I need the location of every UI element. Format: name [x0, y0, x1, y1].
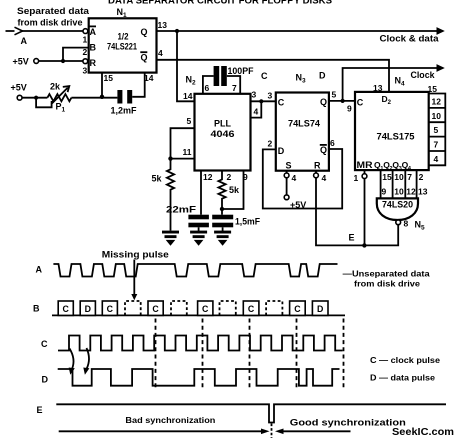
svg-text:1,5mF: 1,5mF — [235, 217, 260, 227]
svg-text:A: A — [90, 27, 97, 37]
svg-text:3: 3 — [83, 66, 88, 76]
svg-text:74LS74: 74LS74 — [288, 119, 320, 129]
svg-text:Q: Q — [320, 145, 327, 155]
pin 4 feedback wire — [251, 101, 262, 117]
curved arrow C to D left — [70, 349, 74, 370]
svg-text:Bad synchronization: Bad synchronization — [125, 415, 215, 425]
svg-text:B: B — [90, 43, 97, 53]
svg-text:C — clock pulse: C — clock pulse — [370, 355, 440, 365]
wire Q3 to 74LS20 — [404, 170, 406, 198]
svg-text:14: 14 — [183, 91, 193, 101]
dashed window box 3 — [220, 301, 236, 315]
svg-text:Good synchronization: Good synchronization — [290, 418, 406, 428]
svg-text:13: 13 — [158, 20, 168, 30]
wire Q2 to 74LS20 — [392, 170, 394, 198]
dashed timing line 2 — [202, 319, 204, 391]
svg-text:2: 2 — [268, 139, 273, 149]
svg-text:15: 15 — [382, 172, 392, 182]
window box D1 — [80, 301, 95, 315]
svg-text:R: R — [90, 58, 97, 68]
junction dot pot — [34, 96, 38, 100]
wire pot to pin15 node — [71, 97, 117, 99]
svg-text:7: 7 — [232, 83, 237, 93]
pot lower loop wire — [36, 98, 52, 108]
svg-text:5k: 5k — [152, 174, 163, 184]
waveform C clock — [58, 336, 343, 351]
wire clock output arrow — [343, 68, 438, 101]
svg-text:12: 12 — [203, 172, 213, 182]
svg-text:D — data pulse: D — data pulse — [370, 372, 435, 382]
pin 12 wire — [200, 171, 202, 215]
svg-text:10: 10 — [394, 187, 404, 197]
svg-text:10: 10 — [432, 111, 442, 121]
dashed timing line 5 — [343, 319, 345, 391]
svg-text:100PF: 100PF — [228, 66, 254, 76]
one-shot U1 74LS221 box — [89, 18, 157, 72]
svg-text:C: C — [294, 304, 301, 314]
svg-text:15: 15 — [104, 73, 114, 83]
svg-text:5: 5 — [434, 125, 439, 135]
junction dot pin 11 — [168, 156, 172, 160]
missing pulse arrow — [133, 260, 135, 295]
wire cap to pin 14 — [132, 73, 145, 97]
bubble on 74LS20 output pin 8 — [396, 220, 401, 225]
svg-text:4: 4 — [322, 173, 327, 183]
svg-text:2: 2 — [227, 172, 232, 182]
svg-text:4046: 4046 — [211, 129, 235, 139]
wire Q output to Clock & data — [157, 30, 438, 32]
pin 11 wire — [171, 158, 195, 160]
junction dot on Q wire — [175, 29, 179, 33]
svg-text:C: C — [357, 97, 364, 107]
svg-text:3: 3 — [252, 90, 257, 100]
svg-text:C: C — [202, 304, 209, 314]
wire Q-bar to D loop — [263, 149, 342, 209]
capacitor 1.5mF — [221, 209, 223, 215]
dashed timing line 3 — [249, 319, 251, 391]
wire +5V to R and B — [39, 60, 83, 62]
svg-text:22mF: 22mF — [166, 205, 196, 216]
svg-text:+5V: +5V — [13, 57, 29, 67]
svg-text:8: 8 — [404, 219, 409, 229]
svg-text:6: 6 — [205, 83, 210, 93]
svg-text:SeekIC.com: SeekIC.com — [392, 426, 454, 438]
capacitor 22mF — [188, 215, 209, 220]
svg-text:4: 4 — [292, 173, 297, 183]
window box C2 — [102, 301, 117, 315]
svg-text:9: 9 — [243, 172, 248, 182]
svg-text:5: 5 — [332, 90, 337, 100]
potentiometer P1 2k — [47, 94, 71, 101]
svg-text:4: 4 — [158, 48, 163, 58]
svg-text:10: 10 — [394, 172, 404, 182]
svg-text:B: B — [33, 303, 40, 313]
waveform E with sync notch — [56, 404, 446, 422]
bubble on S — [286, 171, 288, 173]
svg-text:2k: 2k — [50, 82, 61, 92]
window box C5 — [243, 301, 259, 315]
svg-text:4: 4 — [254, 107, 259, 117]
PLL 4046 U2 box — [195, 94, 251, 171]
svg-text:13: 13 — [418, 187, 428, 197]
dashed timing line 4 — [296, 319, 298, 391]
capacitor 100PF — [214, 66, 220, 86]
svg-text:MR: MR — [357, 160, 374, 170]
curved arrow C to D right — [87, 348, 90, 369]
dashed window box 2 — [171, 301, 187, 315]
svg-text:D: D — [278, 146, 285, 156]
svg-text:74LS221: 74LS221 — [107, 42, 137, 52]
ground under 5k left — [162, 231, 179, 246]
svg-text:+5V: +5V — [290, 200, 306, 210]
svg-text:12: 12 — [406, 187, 416, 197]
svg-text:D: D — [85, 304, 91, 314]
svg-text:1/2: 1/2 — [118, 32, 129, 42]
svg-text:3: 3 — [268, 91, 273, 101]
svg-text:5k: 5k — [229, 185, 240, 195]
wire Q 74LS74 to C 74LS175 — [329, 100, 355, 102]
bubble on MR pin 1 — [364, 170, 366, 174]
input arrowhead — [15, 27, 23, 35]
wire pot left — [22, 97, 47, 99]
wire Q-bar to 74LS175 pin 13 — [157, 60, 390, 92]
svg-text:1: 1 — [83, 35, 88, 45]
waveform A — [53, 264, 337, 277]
node E junction dot — [362, 243, 366, 247]
junction dot — [61, 59, 65, 63]
svg-text:from disk drive: from disk drive — [18, 18, 83, 28]
svg-text:Missing pulse: Missing pulse — [102, 250, 169, 260]
svg-text:74LS175: 74LS175 — [377, 131, 415, 141]
flip-flop U3 74LS74 box — [276, 93, 329, 171]
pin 7 stub — [227, 76, 240, 94]
window box C1 — [58, 301, 73, 315]
junction dot node C — [259, 99, 263, 103]
ground under 22mF — [190, 231, 207, 246]
svg-text:2: 2 — [419, 172, 424, 182]
dashed window box 1 — [125, 301, 141, 315]
arrowhead clock & data — [437, 27, 445, 35]
svg-text:7: 7 — [434, 140, 439, 150]
junction dot clock node — [341, 99, 345, 103]
window box D2 — [312, 301, 328, 315]
wire Q to PLL pin 14 — [177, 31, 195, 101]
svg-text:Clock: Clock — [411, 70, 436, 80]
svg-text:DATA SEPARATOR CIRCUIT FOR FLO: DATA SEPARATOR CIRCUIT FOR FLOPPY DISKS — [108, 0, 332, 6]
bubble on R — [315, 171, 317, 173]
svg-text:E: E — [37, 405, 43, 415]
pin 6 stub — [203, 76, 214, 94]
pin 9 wire — [222, 171, 244, 210]
window box C3 — [148, 301, 163, 315]
label: Separated data from disk drive — [17, 6, 90, 28]
window box C6 — [290, 301, 306, 315]
wire S to +5V — [286, 178, 288, 195]
gate U5 74LS20 — [377, 198, 418, 220]
svg-text:PLL: PLL — [214, 119, 232, 129]
svg-text:5: 5 — [187, 116, 192, 126]
svg-text:13: 13 — [373, 83, 383, 93]
svg-text:C: C — [278, 97, 285, 107]
svg-text:A: A — [21, 36, 28, 46]
svg-text:Q: Q — [141, 53, 148, 63]
pin 5 wire — [171, 128, 195, 158]
waveform D data — [58, 369, 340, 386]
svg-text:1: 1 — [354, 173, 359, 183]
wire MR to node E — [364, 179, 366, 246]
svg-text:C: C — [152, 304, 159, 314]
svg-text:+5V: +5V — [11, 83, 27, 93]
svg-text:from disk drive: from disk drive — [354, 279, 420, 289]
wire R to node E — [316, 178, 364, 246]
svg-text:C: C — [107, 304, 114, 314]
dashed window box 4 — [266, 301, 282, 315]
junction dot pin 15 — [100, 95, 104, 99]
svg-text:Q: Q — [320, 97, 327, 107]
svg-text:4: 4 — [434, 154, 439, 164]
svg-text:E: E — [349, 233, 355, 243]
svg-text:9: 9 — [382, 187, 387, 197]
svg-text:C: C — [248, 304, 255, 314]
svg-text:D: D — [42, 375, 49, 385]
bubble on A input — [83, 29, 88, 34]
svg-text:11: 11 — [183, 147, 192, 157]
svg-text:Clock & data: Clock & data — [380, 34, 440, 44]
svg-text:Q: Q — [141, 27, 148, 37]
svg-text:9: 9 — [347, 104, 352, 114]
svg-text:D: D — [319, 71, 326, 81]
window box C4 — [198, 301, 213, 315]
junction dot 5k/1.5mF — [220, 207, 224, 211]
svg-text:12: 12 — [432, 97, 442, 107]
dashed timing line 1 — [155, 319, 157, 391]
svg-text:D: D — [317, 304, 323, 314]
svg-text:C: C — [41, 339, 48, 349]
svg-text:7: 7 — [407, 172, 412, 182]
svg-text:C: C — [261, 71, 268, 81]
pot wiper arrow — [52, 88, 68, 104]
svg-text:—Unseparated data: —Unseparated data — [343, 269, 430, 279]
wire Q4 to 74LS20 — [416, 170, 418, 198]
dashed line at notch — [271, 424, 273, 439]
wire input A — [6, 30, 84, 32]
svg-text:15: 15 — [428, 84, 438, 94]
row B baseline — [52, 314, 345, 316]
bubble on R input — [83, 59, 88, 64]
capacitor 1.2mF — [117, 90, 122, 104]
svg-text:1,2mF: 1,2mF — [111, 106, 137, 116]
svg-text:S: S — [286, 161, 292, 171]
pin 3 wire to node C — [251, 100, 276, 102]
wire Q1 to 74LS20 — [380, 170, 382, 198]
pin 2 wire and resistor 5k right — [218, 171, 225, 210]
svg-text:C: C — [63, 304, 70, 314]
register U4 74LS175 box — [355, 92, 429, 170]
svg-text:R: R — [314, 161, 321, 171]
ground under 1.5mF — [214, 231, 231, 246]
bad sync dimension line — [59, 430, 263, 432]
svg-text:Separated data: Separated data — [17, 6, 90, 16]
good sync dimension line — [284, 430, 351, 432]
wire pin 15 — [101, 73, 103, 97]
resistor 5k left — [167, 159, 174, 231]
wire 74LS20 output to node E — [364, 225, 398, 246]
connector comb right of 74LS175 — [429, 94, 446, 166]
svg-text:6: 6 — [330, 138, 335, 148]
svg-text:A: A — [36, 264, 43, 274]
svg-text:74LS20: 74LS20 — [382, 200, 413, 210]
